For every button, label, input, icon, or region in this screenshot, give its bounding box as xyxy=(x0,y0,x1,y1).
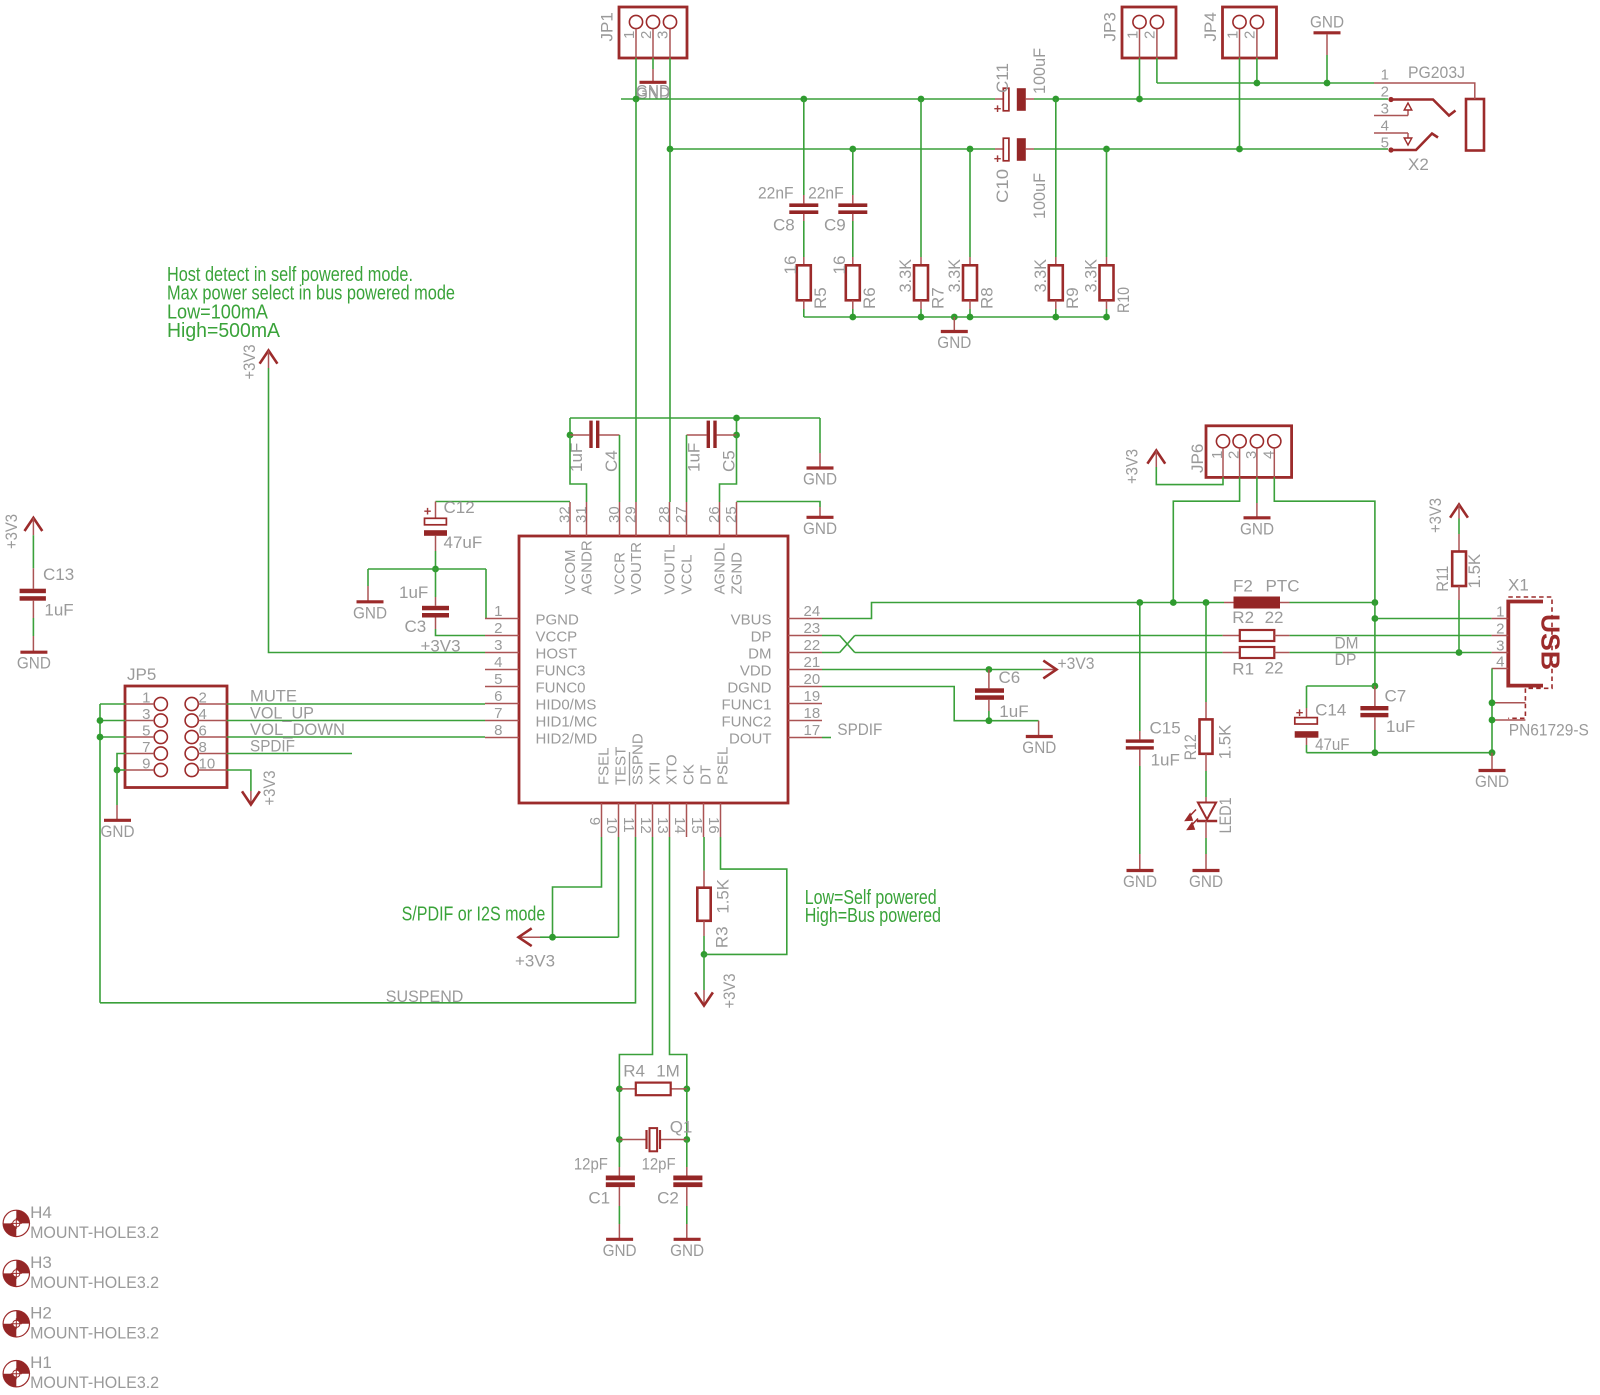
svg-text:32: 32 xyxy=(556,506,573,523)
capacitor C1 12pF xyxy=(574,1155,635,1208)
mount hole H3 xyxy=(3,1253,159,1292)
ground USB xyxy=(1475,753,1509,791)
wire JP5.5 left xyxy=(100,736,125,738)
svg-text:27: 27 xyxy=(673,506,690,523)
capacitor C5 1uF xyxy=(685,421,739,472)
svg-text:4: 4 xyxy=(199,706,207,723)
ground under JP1 xyxy=(636,58,670,103)
junction VDD C6 xyxy=(986,666,993,673)
wire gnd branch xyxy=(367,569,369,601)
wire pin22 stub xyxy=(822,652,840,654)
wire JP4.1 down xyxy=(1239,58,1241,149)
wire bus2 to C9 xyxy=(852,149,854,203)
svg-text:VCCL: VCCL xyxy=(678,554,695,594)
svg-text:20: 20 xyxy=(804,671,821,688)
supply +3V3 right arrow xyxy=(1043,661,1057,679)
supply +3V3 arrow HOST xyxy=(240,345,277,380)
svg-text:C4: C4 xyxy=(602,450,621,472)
wire C2 to gnd xyxy=(686,1187,688,1239)
junction R4 left xyxy=(616,1086,623,1093)
svg-text:H3: H3 xyxy=(30,1253,52,1272)
svg-text:DGND: DGND xyxy=(727,680,771,697)
svg-text:FUNC1: FUNC1 xyxy=(721,697,771,714)
svg-text:H2: H2 xyxy=(30,1303,52,1322)
svg-text:5: 5 xyxy=(1381,135,1389,152)
svg-text:Q1: Q1 xyxy=(670,1118,693,1137)
svg-text:+: + xyxy=(994,101,1002,116)
ground C1 xyxy=(603,1239,637,1260)
svg-text:12: 12 xyxy=(637,817,654,834)
svg-text:VOUTL: VOUTL xyxy=(661,544,678,594)
svg-text:+: + xyxy=(1296,705,1304,720)
wire C3 to pin2 xyxy=(436,618,486,636)
wire GND bus left xyxy=(621,98,995,100)
wire pin12 to R4 xyxy=(619,837,652,1089)
label GND bus xyxy=(636,82,670,101)
svg-text:5: 5 xyxy=(494,671,502,688)
svg-text:GND: GND xyxy=(670,1241,704,1260)
svg-text:1uF: 1uF xyxy=(399,583,428,602)
svg-text:C6: C6 xyxy=(999,668,1021,687)
junction Q1 left xyxy=(616,1136,623,1143)
wire JP5.10 to 3V3 xyxy=(227,770,251,791)
label +3V3 vdd xyxy=(1058,654,1095,673)
ground C6 xyxy=(1022,721,1056,757)
wire C5 to pin27 xyxy=(686,435,688,502)
svg-text:29: 29 xyxy=(622,506,639,523)
connector JP5 xyxy=(125,665,227,788)
junction bus2 C9 xyxy=(849,146,856,153)
wire C4 to pin31 xyxy=(570,435,587,502)
svg-text:FSEL: FSEL xyxy=(595,747,612,785)
wire pin17 spdif xyxy=(822,737,831,739)
wire R10 to bus3 xyxy=(1106,300,1108,317)
junction 3V3 tie xyxy=(549,934,556,941)
svg-text:3.3K: 3.3K xyxy=(896,258,915,292)
wire USB pin4 down xyxy=(1491,669,1493,753)
junction USB pin1 tee xyxy=(1372,615,1379,622)
svg-text:JP5: JP5 xyxy=(127,665,156,684)
wire C4 to pin30 xyxy=(619,435,621,502)
IC top pin stubs xyxy=(570,502,737,536)
wire bus2 left xyxy=(669,148,995,150)
svg-text:2: 2 xyxy=(1226,451,1243,459)
wire Q1 to C1 xyxy=(618,1140,620,1176)
wire +3V3 to C13 xyxy=(32,535,34,589)
label SPDIF xyxy=(250,737,295,756)
wire C14 top link xyxy=(1307,686,1375,718)
wire bus2 to R8 xyxy=(969,149,971,265)
wire VOL_DOWN xyxy=(227,736,485,738)
junction VBUS R12 xyxy=(1203,599,1210,606)
svg-text:H4: H4 xyxy=(30,1203,52,1222)
svg-text:3: 3 xyxy=(1381,101,1389,118)
svg-text:1: 1 xyxy=(621,31,638,39)
connector JP6 xyxy=(1188,426,1292,478)
svg-text:GND: GND xyxy=(353,603,387,622)
svg-text:GND: GND xyxy=(603,1241,637,1260)
ground JP6 xyxy=(1240,518,1274,539)
svg-text:22nF: 22nF xyxy=(758,183,794,202)
wire C5 to pin26 xyxy=(720,435,737,502)
wire VBUS to R12 xyxy=(1205,603,1207,720)
wire R6 to bus3 xyxy=(852,300,854,317)
label DM xyxy=(1335,634,1359,653)
wire C8 to R5 xyxy=(803,214,805,265)
wire VOL_UP xyxy=(227,720,485,722)
svg-text:HID1/MC: HID1/MC xyxy=(536,714,598,731)
svg-text:C1: C1 xyxy=(588,1189,610,1208)
IC left pin stubs xyxy=(485,619,519,738)
wire R3 bottom xyxy=(703,921,705,955)
svg-text:31: 31 xyxy=(573,506,590,523)
svg-text:VOUTR: VOUTR xyxy=(628,542,645,595)
svg-text:1.5K: 1.5K xyxy=(713,878,732,913)
svg-text:12pF: 12pF xyxy=(574,1155,608,1174)
svg-text:DP: DP xyxy=(751,629,772,646)
svg-text:C7: C7 xyxy=(1385,687,1407,706)
wire R3 node down xyxy=(703,954,705,990)
svg-text:+3V3: +3V3 xyxy=(421,637,461,656)
svg-text:9: 9 xyxy=(142,756,150,773)
wire F2 to USB node xyxy=(1290,602,1375,604)
svg-text:VBUS: VBUS xyxy=(731,612,772,629)
svg-text:6: 6 xyxy=(494,688,502,705)
wire JP6.3 gnd xyxy=(1256,477,1258,517)
IC PCM2702 body xyxy=(519,536,788,803)
wire R5 to bus3 xyxy=(803,300,805,317)
svg-text:HID2/MD: HID2/MD xyxy=(536,731,598,748)
svg-text:1.5K: 1.5K xyxy=(1465,553,1484,588)
annotation spdif mode xyxy=(402,903,546,925)
junction shield b xyxy=(1489,717,1496,724)
usb connector X1 PN61729-S xyxy=(1492,576,1589,740)
wire bus1 to C8 xyxy=(803,99,805,203)
svg-text:HID0/MS: HID0/MS xyxy=(536,697,597,714)
wire JP5 left vertical xyxy=(99,704,101,1003)
connector JP4 xyxy=(1201,7,1276,58)
wire C6 top xyxy=(988,670,990,689)
svg-text:4: 4 xyxy=(494,654,502,671)
svg-text:1: 1 xyxy=(1209,451,1226,459)
wire JP5.7 left xyxy=(117,754,125,771)
svg-text:4: 4 xyxy=(1260,451,1277,459)
supply +3V3 arrow C13 xyxy=(2,514,42,549)
svg-text:GND: GND xyxy=(1189,872,1223,891)
svg-text:16: 16 xyxy=(781,256,800,275)
junction bus2 R8 xyxy=(967,146,974,153)
supply +3V3 arrow JP6 xyxy=(1123,449,1166,484)
svg-text:2: 2 xyxy=(1241,31,1258,39)
svg-text:8: 8 xyxy=(199,739,207,756)
svg-text:28: 28 xyxy=(656,506,673,523)
svg-text:TEST: TEST xyxy=(612,747,629,785)
svg-text:2: 2 xyxy=(638,31,655,39)
wire SPDIF xyxy=(227,753,352,755)
ground top right xyxy=(1310,13,1344,84)
capacitor C6 1uF xyxy=(975,668,1029,721)
junction R4 right xyxy=(683,1086,690,1093)
wire 3V3 tie xyxy=(540,936,619,938)
wire JP6.1 xyxy=(1156,467,1223,485)
svg-text:GND: GND xyxy=(17,654,51,673)
IC right pin stubs xyxy=(788,619,822,738)
label DP xyxy=(1335,650,1357,669)
wire bus1 to R7 xyxy=(920,99,922,265)
junction GND stem xyxy=(1324,80,1331,87)
svg-text:GND: GND xyxy=(1240,519,1274,538)
wire bus2 to R10 xyxy=(1106,149,1108,265)
resistor R3 1.5K xyxy=(697,878,732,948)
label VOL_DOWN xyxy=(250,720,345,739)
svg-text:R1: R1 xyxy=(1232,660,1254,679)
svg-text:13: 13 xyxy=(654,817,671,834)
junction bus3 R9 xyxy=(1052,314,1059,321)
junction bus3 R7 xyxy=(918,314,925,321)
junction bus1 R7 xyxy=(918,96,925,103)
junction bus3 gnd xyxy=(951,314,958,321)
svg-text:+3V3: +3V3 xyxy=(240,345,259,380)
capacitor C13 1uF xyxy=(20,565,75,620)
wire LED to gnd xyxy=(1205,821,1207,870)
led LED1 xyxy=(1186,797,1235,833)
svg-text:JP1: JP1 xyxy=(598,12,617,41)
resistor R4 1M xyxy=(619,1062,686,1096)
svg-text:SSPND: SSPND xyxy=(629,733,646,785)
junction R3 node xyxy=(701,951,708,958)
svg-text:GND: GND xyxy=(1310,13,1344,32)
svg-text:2: 2 xyxy=(494,620,502,637)
svg-text:10: 10 xyxy=(603,817,620,834)
wire pin25 gnd xyxy=(737,502,821,517)
svg-text:C3: C3 xyxy=(405,617,427,636)
connector JP3 xyxy=(1101,7,1176,58)
svg-text:R10: R10 xyxy=(1114,287,1133,313)
svg-text:C10: C10 xyxy=(993,169,1012,203)
svg-text:VCOM: VCOM xyxy=(562,550,579,595)
annotation host detect xyxy=(167,264,455,342)
svg-text:X1: X1 xyxy=(1508,576,1529,595)
svg-text:PG203J: PG203J xyxy=(1408,63,1465,82)
svg-text:HOST: HOST xyxy=(536,646,578,663)
wire JP6.2 xyxy=(1173,477,1239,602)
junction C5 right xyxy=(733,432,740,439)
svg-text:22: 22 xyxy=(804,637,821,654)
wire pin23 stub xyxy=(822,635,840,637)
svg-text:SPDIF: SPDIF xyxy=(250,737,295,756)
resistor R8 3.3K xyxy=(945,258,996,309)
capacitor C9 22nF xyxy=(808,183,867,234)
svg-text:9: 9 xyxy=(586,817,603,825)
ground pin25 xyxy=(803,517,837,538)
svg-text:3: 3 xyxy=(142,706,150,723)
svg-text:18: 18 xyxy=(804,705,821,722)
label MUTE xyxy=(250,687,297,706)
svg-text:GND: GND xyxy=(937,333,971,352)
svg-text:1: 1 xyxy=(1496,604,1504,621)
wire DP to USB xyxy=(1290,652,1492,654)
wire JP1.1 to GND bus xyxy=(635,58,637,99)
label +3V3 at pin3 xyxy=(421,637,461,656)
svg-text:DM: DM xyxy=(748,646,771,663)
junction bus3 R8 xyxy=(967,314,974,321)
wire JP3.1 down xyxy=(1139,58,1141,99)
wire R7 to bus3 xyxy=(920,300,922,317)
wire +3V3 to HOST pin3 xyxy=(269,368,486,653)
supply +3V3 left arrow xyxy=(519,928,541,946)
label VOL_UP xyxy=(250,704,314,723)
IC bottom pin stubs xyxy=(602,803,721,837)
svg-text:10: 10 xyxy=(199,756,216,773)
svg-text:GND: GND xyxy=(1123,872,1157,891)
wire JP4.2 down xyxy=(1256,58,1258,83)
wire net to jack pin1 xyxy=(1157,82,1374,84)
svg-text:24: 24 xyxy=(804,603,821,620)
junction bus1 R9 xyxy=(1052,96,1059,103)
junction C4 left xyxy=(567,432,574,439)
wire bus2 to pin28 xyxy=(669,149,671,502)
svg-text:19: 19 xyxy=(804,688,821,705)
svg-text:15: 15 xyxy=(688,817,705,834)
supply +3V3 arrow R11 xyxy=(1426,498,1468,533)
wire C9 to R6 xyxy=(852,214,854,265)
svg-text:1: 1 xyxy=(494,603,502,620)
svg-text:SPDIF: SPDIF xyxy=(837,720,882,739)
junction bus1 C8 xyxy=(800,96,807,103)
capacitor C10 100uF xyxy=(993,138,1049,219)
capacitor C14 47uF xyxy=(1295,701,1350,754)
junction JP5.3 xyxy=(97,717,104,724)
wire pin16 loop xyxy=(704,837,787,954)
svg-text:100uF: 100uF xyxy=(1030,173,1049,219)
wire C7 bottom xyxy=(1374,717,1376,752)
wire C13 to gnd xyxy=(32,601,34,652)
wire C1 to gnd xyxy=(618,1187,620,1239)
wire crossover a xyxy=(840,636,855,653)
svg-text:22: 22 xyxy=(1265,608,1284,627)
wire DP line xyxy=(855,652,1223,654)
svg-text:1: 1 xyxy=(1224,31,1241,39)
wire DM to USB xyxy=(1290,635,1492,637)
svg-text:GND: GND xyxy=(101,822,135,841)
wire pin9 path xyxy=(553,837,602,937)
svg-text:C8: C8 xyxy=(773,216,795,235)
resistor R1 22 xyxy=(1223,647,1290,679)
svg-text:3.3K: 3.3K xyxy=(1031,258,1050,292)
svg-text:R8: R8 xyxy=(977,287,996,309)
ground bus3 xyxy=(937,317,971,352)
svg-text:26: 26 xyxy=(706,506,723,523)
svg-text:C11: C11 xyxy=(993,63,1012,93)
resistor R7 3.3K xyxy=(896,258,947,309)
svg-text:XTO: XTO xyxy=(663,754,680,785)
ground C2 xyxy=(670,1239,704,1260)
wire R12 to LED xyxy=(1205,754,1207,803)
junction DP R11 xyxy=(1456,649,1463,656)
svg-text:GND: GND xyxy=(1022,738,1056,757)
wire GND bus right xyxy=(1034,98,1388,100)
svg-text:JP3: JP3 xyxy=(1101,12,1120,41)
junction usb gnd xyxy=(1489,749,1496,756)
label +3V3 fsel xyxy=(515,952,555,971)
wire VBUS from pin24 xyxy=(822,603,1224,619)
svg-text:1: 1 xyxy=(142,690,150,707)
junction bus2 JP4.1 xyxy=(1236,146,1243,153)
svg-text:+3V3: +3V3 xyxy=(1426,498,1445,533)
svg-text:H1: H1 xyxy=(30,1353,52,1372)
svg-text:1uF: 1uF xyxy=(685,443,704,472)
svg-text:VDD: VDD xyxy=(740,663,772,680)
svg-text:R9: R9 xyxy=(1063,287,1082,309)
svg-text:AGNDR: AGNDR xyxy=(578,540,595,594)
svg-text:High=Bus powered: High=Bus powered xyxy=(805,905,941,927)
svg-text:17: 17 xyxy=(804,722,821,739)
capacitor C3 1uF xyxy=(399,583,449,636)
svg-text:2: 2 xyxy=(199,690,207,707)
wire R8 to bus3 xyxy=(969,300,971,317)
wire node to C3 xyxy=(435,569,437,606)
svg-text:S/PDIF or I2S mode: S/PDIF or I2S mode xyxy=(402,903,546,925)
svg-text:JP6: JP6 xyxy=(1188,444,1207,473)
svg-text:LED1: LED1 xyxy=(1216,797,1235,833)
resistor R11 1.5K xyxy=(1433,552,1484,592)
svg-text:R4: R4 xyxy=(623,1062,645,1081)
wire 3V3 to R11 xyxy=(1458,519,1460,552)
svg-text:C14: C14 xyxy=(1315,701,1346,720)
wire R4 to Q1 left xyxy=(618,1089,620,1140)
svg-text:3: 3 xyxy=(494,637,502,654)
annotation power mode xyxy=(805,887,941,927)
wire bottom bus xyxy=(804,316,1107,318)
ground C12 node xyxy=(353,602,387,623)
audio jack X2 PG203J xyxy=(1374,63,1484,174)
svg-text:USB: USB xyxy=(1536,614,1566,670)
svg-text:25: 25 xyxy=(723,506,740,523)
svg-text:16: 16 xyxy=(705,817,722,834)
wire crossover b xyxy=(840,636,855,653)
wire DM line xyxy=(855,635,1223,637)
wire DGND xyxy=(822,687,1039,721)
ground C15 xyxy=(1123,871,1157,892)
svg-text:12pF: 12pF xyxy=(642,1155,676,1174)
svg-text:R5: R5 xyxy=(811,287,830,309)
svg-text:1uF: 1uF xyxy=(999,702,1028,721)
svg-text:+3V3: +3V3 xyxy=(2,514,21,549)
wire C12 bottom xyxy=(435,551,437,569)
svg-text:FUNC3: FUNC3 xyxy=(536,663,586,680)
svg-text:MOUNT-HOLE3.2: MOUNT-HOLE3.2 xyxy=(30,1323,159,1342)
svg-text:3.3K: 3.3K xyxy=(1082,258,1101,292)
svg-text:5: 5 xyxy=(142,723,150,740)
svg-text:+3V3: +3V3 xyxy=(1058,654,1095,673)
svg-text:+3V3: +3V3 xyxy=(515,952,555,971)
connector JP1 xyxy=(598,7,687,58)
wire JP3.2 down xyxy=(1156,58,1158,83)
junction JP4.2 xyxy=(1254,80,1261,87)
svg-text:C12: C12 xyxy=(444,498,475,517)
svg-text:FUNC2: FUNC2 xyxy=(721,714,771,731)
svg-text:2: 2 xyxy=(1381,84,1389,101)
svg-text:23: 23 xyxy=(804,620,821,637)
resistor R10 3.3K xyxy=(1082,258,1133,313)
svg-text:14: 14 xyxy=(671,817,688,834)
wire VBUS to C15 xyxy=(1139,603,1141,740)
svg-text:VCCP: VCCP xyxy=(536,629,578,646)
wire C15 to gnd xyxy=(1139,750,1141,870)
svg-text:7: 7 xyxy=(142,739,150,756)
svg-text:R2: R2 xyxy=(1232,608,1254,627)
svg-text:22nF: 22nF xyxy=(808,183,844,202)
